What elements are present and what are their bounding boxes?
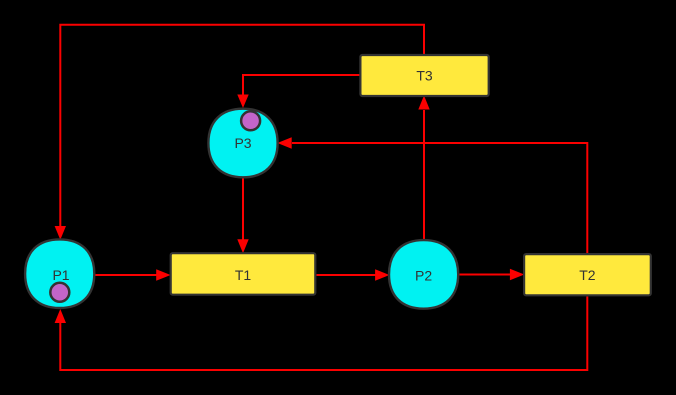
svg-text:P2: P2 [415,268,432,284]
svg-text:T3: T3 [416,68,433,84]
arrowhead into T3 bottom [418,96,429,110]
place P2 [389,240,458,309]
svg-text:P3: P3 [234,135,251,151]
wire P2 to T3 [423,110,425,240]
arrowhead into P3 right [277,137,291,149]
arrowhead into P2 left [375,269,389,281]
svg-text:T1: T1 [235,267,252,283]
place P3 [208,109,277,178]
wire P3 to T1 [242,178,244,240]
wire T2 to P1 (bottom loop) [60,297,587,371]
transition T1 [171,253,316,295]
arrowhead into P1 top [55,226,66,240]
arrowhead into T1 top [237,239,248,253]
wire P2 to T2 [459,274,510,276]
place P1 [25,239,94,308]
svg-text:T2: T2 [579,267,596,283]
wire T3 to P1 (top-left loop) [60,25,424,227]
token in P1 [50,283,69,302]
arrowhead into P1 bottom [55,309,66,323]
wire P1 to T1 [95,274,157,276]
transition T3 [360,55,488,96]
arrowhead into P3 top [237,95,248,109]
wire T2 to P3 [292,143,587,253]
svg-text:P1: P1 [52,267,69,283]
wire T1 to P2 [317,274,376,276]
arrowhead into T2 left [510,269,524,281]
wire T3 to P3 [243,75,360,95]
transition T2 [524,254,651,295]
token in P3 [241,111,260,130]
arrowhead into T1 left [156,269,170,281]
